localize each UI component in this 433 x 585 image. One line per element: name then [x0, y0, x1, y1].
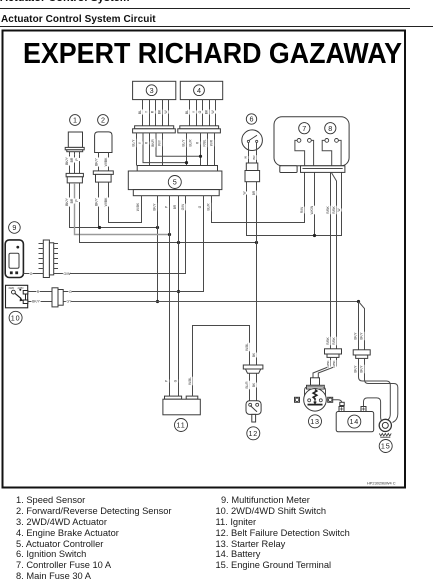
svg-text:HP23029BW4 C: HP23029BW4 C — [367, 481, 396, 486]
svg-text:BL/R: BL/R — [206, 203, 210, 211]
svg-text:BL/R: BL/R — [189, 139, 193, 147]
svg-text:BL/Y: BL/Y — [132, 139, 136, 147]
svg-text:BR: BR — [173, 204, 177, 209]
svg-text:BK/Y: BK/Y — [360, 364, 364, 372]
svg-text:3: 3 — [150, 86, 154, 95]
svg-text:13: 13 — [310, 417, 320, 426]
svg-text:P: P — [165, 380, 169, 382]
svg-text:BK/Y: BK/Y — [152, 202, 156, 210]
svg-text:W/BL: W/BL — [245, 343, 249, 351]
svg-text:R/BK: R/BK — [326, 360, 330, 367]
svg-text:BK/Y: BK/Y — [65, 197, 69, 205]
svg-text:W: W — [164, 110, 168, 114]
svg-text:10: 10 — [11, 313, 21, 322]
svg-text:BR: BR — [70, 198, 74, 203]
svg-text:1: 1 — [73, 116, 77, 125]
svg-text:R/BK: R/BK — [332, 205, 336, 213]
svg-text:O: O — [198, 110, 202, 113]
svg-text:6: 6 — [250, 115, 254, 124]
svg-text:P: P — [164, 206, 168, 208]
svg-text:9: 9 — [12, 223, 16, 232]
svg-text:BL/R: BL/R — [245, 381, 249, 389]
svg-text:W/BK: W/BK — [104, 197, 108, 206]
svg-text:W/Y: W/Y — [158, 139, 162, 146]
svg-text:BR: BR — [252, 190, 256, 195]
svg-text:BL: BL — [185, 110, 189, 114]
svg-text:BK: BK — [158, 109, 162, 114]
svg-text:15: 15 — [381, 442, 391, 451]
svg-text:BK/Y: BK/Y — [65, 156, 69, 164]
svg-text:W/GN: W/GN — [310, 205, 314, 214]
svg-text:5: 5 — [173, 178, 177, 187]
svg-text:12: 12 — [248, 429, 258, 438]
svg-text:4: 4 — [197, 86, 201, 95]
svg-text:W: W — [337, 208, 341, 211]
svg-text:BR: BR — [70, 157, 74, 162]
svg-text:BK/Y: BK/Y — [95, 157, 99, 165]
svg-text:W/BK: W/BK — [104, 157, 108, 166]
svg-text:BK/Y: BK/Y — [95, 197, 99, 205]
svg-text:GY: GY — [67, 300, 73, 304]
svg-text:11: 11 — [176, 421, 185, 430]
svg-text:BL: BL — [138, 110, 142, 114]
svg-text:2: 2 — [101, 116, 105, 125]
svg-text:G: G — [69, 290, 72, 294]
svg-text:BK/R: BK/R — [151, 139, 155, 147]
svg-text:G: G — [30, 272, 33, 276]
svg-text:BK/Y: BK/Y — [32, 300, 40, 304]
svg-text:W/BL: W/BL — [188, 377, 192, 385]
svg-text:BK/Y: BK/Y — [353, 331, 357, 339]
svg-text:R/BK: R/BK — [326, 205, 330, 213]
svg-text:G/W: G/W — [64, 272, 72, 276]
svg-text:R/BK: R/BK — [332, 360, 336, 367]
svg-text:W: W — [244, 156, 248, 159]
svg-text:BK: BK — [205, 109, 209, 114]
svg-text:W: W — [211, 110, 215, 114]
svg-text:7: 7 — [302, 124, 306, 133]
svg-text:R/BL: R/BL — [203, 139, 207, 146]
svg-text:G/W: G/W — [181, 204, 185, 210]
svg-text:BK/Y: BK/Y — [360, 331, 364, 339]
svg-text:R/BK: R/BK — [326, 336, 330, 344]
svg-text:14: 14 — [349, 417, 359, 426]
svg-text:R/W: R/W — [300, 207, 304, 213]
svg-text:BL/Y: BL/Y — [182, 139, 186, 147]
svg-text:BK/Y: BK/Y — [353, 364, 357, 372]
svg-text:W/R: W/R — [210, 139, 214, 146]
svg-text:R/BK: R/BK — [332, 336, 336, 344]
svg-text:W: W — [242, 191, 246, 194]
svg-text:W/BK: W/BK — [136, 202, 140, 211]
svg-text:8: 8 — [328, 124, 332, 133]
